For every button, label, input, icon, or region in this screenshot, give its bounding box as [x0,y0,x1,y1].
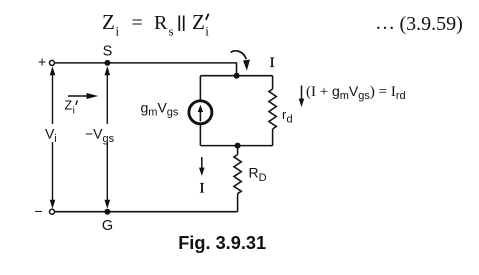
svg-text:m: m [148,107,157,119]
svg-text:(I + gmVgs) = Ird: (I + gmVgs) = Ird [306,83,406,102]
svg-text:Z: Z [65,98,73,112]
svg-text:−: − [35,203,43,219]
svg-text:R: R [249,165,259,181]
svg-text:i: i [116,24,120,39]
svg-text:g: g [141,99,149,115]
svg-text:I: I [270,55,275,71]
svg-text:+: + [38,53,46,69]
svg-text:gs: gs [167,107,179,119]
svg-text:i: i [73,105,75,116]
svg-text:R: R [154,12,168,34]
svg-text:I: I [200,181,205,197]
svg-text:gs: gs [103,133,115,145]
svg-text:d: d [287,114,293,126]
svg-text:D: D [259,172,267,184]
svg-text:s: s [169,24,174,39]
svg-text:Z: Z [102,10,115,34]
svg-text:i: i [54,133,56,145]
svg-text:S: S [103,43,113,59]
svg-text:=: = [132,12,143,34]
svg-text:…: … [375,12,395,34]
svg-text:(3.9.59): (3.9.59) [400,13,463,35]
svg-text:Fig. 3.9.31: Fig. 3.9.31 [178,233,266,253]
svg-text:Z: Z [192,10,205,34]
svg-text:i: i [205,24,209,39]
svg-text:G: G [102,218,113,234]
svg-text:−V: −V [85,126,103,142]
